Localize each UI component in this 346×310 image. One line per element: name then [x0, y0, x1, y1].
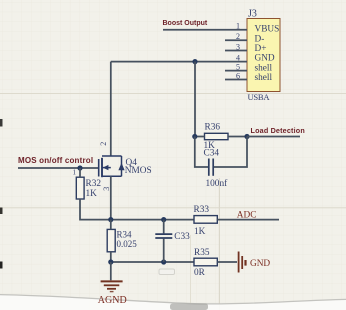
svg-text:R35: R35 — [194, 248, 210, 258]
power symbol GND (bars) — [239, 252, 246, 273]
wire Load Detection — [247, 136, 300, 138]
AGND bar 1 — [101, 280, 123, 282]
faint artifact line vertical right — [219, 178, 220, 310]
node junction gate/R32 — [77, 165, 82, 170]
resistor R32 — [76, 177, 84, 199]
C34 plate left — [208, 159, 210, 176]
svg-text:C34: C34 — [204, 149, 220, 159]
wire R32 top lead — [79, 168, 81, 177]
C33 plate top — [155, 233, 172, 235]
wire R34 top lead — [110, 220, 112, 230]
svg-text:1: 1 — [73, 168, 77, 176]
svg-text:0.025: 0.025 — [117, 239, 138, 249]
artifact left edge mark 1 — [0, 119, 3, 127]
node junction rail/C33 top — [161, 217, 166, 222]
svg-text:C33: C33 — [174, 232, 190, 242]
wire R34 bottom lead — [110, 252, 112, 262]
svg-text:0R: 0R — [194, 268, 206, 278]
source stub — [102, 175, 122, 177]
resistor R33 — [194, 216, 217, 224]
node junction pin4/R36 branch — [192, 59, 197, 64]
drain stub — [102, 155, 122, 157]
bottom photo white band — [0, 295, 346, 310]
resistor R36 — [205, 133, 229, 139]
svg-text:D-: D- — [255, 34, 265, 44]
C34 plate right — [212, 159, 214, 176]
wire pin5 stub — [225, 70, 247, 72]
faint artifact line vertical — [190, 235, 191, 310]
middle stub — [102, 167, 111, 169]
svg-text:1K: 1K — [194, 227, 206, 237]
wire C33 bottom stem — [163, 239, 165, 262]
node junction rail/source — [108, 217, 113, 222]
svg-text:GND: GND — [250, 259, 270, 269]
capacitor C33 — [155, 220, 172, 262]
faint artifact line horizontal middle — [0, 207, 346, 208]
body arrow (points up) — [118, 163, 124, 171]
svg-text:NMOS: NMOS — [125, 166, 152, 176]
node junction R36 left — [192, 134, 197, 139]
wire vertical to R36 left — [194, 62, 196, 137]
svg-text:Load Detection: Load Detection — [251, 126, 305, 135]
svg-text:USBA: USBA — [248, 92, 271, 102]
wire gate control — [18, 167, 98, 169]
svg-text:2: 2 — [99, 142, 108, 146]
wire R36 left lead — [195, 136, 205, 138]
svg-text:GND: GND — [255, 54, 275, 64]
artifact left edge mark 2 — [0, 208, 3, 215]
bottom dark smudge — [170, 304, 208, 310]
node junction rail2/C33 — [161, 259, 166, 264]
wire top rail (ADC rail) — [111, 219, 194, 221]
ground AGND symbol — [101, 262, 123, 292]
wire GND net pin4 horizontal — [111, 61, 247, 63]
svg-text:100nf: 100nf — [206, 178, 229, 189]
gate arrow (points left) — [103, 165, 109, 170]
svg-text:shell: shell — [255, 73, 273, 83]
wire C33 top stem — [163, 220, 165, 234]
AGND bar 3 — [107, 288, 116, 290]
wire pin2 stub — [225, 39, 247, 41]
wire pin6 stub — [225, 79, 247, 81]
wire Boost Output to pin 1 — [163, 29, 247, 31]
svg-text:R33: R33 — [194, 205, 210, 215]
svg-text:3: 3 — [102, 187, 111, 191]
AGND bar 2 — [104, 284, 120, 286]
svg-text:R32: R32 — [86, 179, 102, 189]
connector J3 body — [247, 19, 280, 92]
artifact left edge mark 3 — [0, 262, 3, 269]
svg-text:Boost Output: Boost Output — [163, 20, 208, 27]
svg-text:R36: R36 — [205, 122, 221, 132]
svg-text:shell: shell — [255, 63, 273, 73]
wire R33 to ADC — [217, 219, 279, 221]
svg-text:J3: J3 — [248, 8, 257, 19]
wire source vertical — [110, 176, 112, 219]
channel bar — [101, 158, 103, 177]
capacitor C34 — [195, 137, 247, 176]
node junction rail2/R34 — [108, 259, 113, 264]
svg-text:ADC: ADC — [237, 210, 257, 220]
wire AGND stem — [110, 262, 112, 280]
wire R36 right lead — [228, 136, 247, 138]
svg-text:MOS on/off control: MOS on/off control — [18, 156, 93, 165]
bottom gray line — [0, 295, 346, 304]
wire C34 left vertical — [195, 137, 209, 168]
AGND bar 4 — [110, 291, 114, 293]
wire bottom rail (GND rail) — [111, 261, 194, 263]
wire C34 right vertical — [213, 137, 247, 168]
wire pin3 stub — [225, 50, 247, 52]
wire R32 bottom to rail — [80, 199, 111, 220]
wire vertical drain from pin4 — [110, 62, 112, 156]
wire R35 to GND — [217, 261, 237, 263]
C33 plate bottom — [155, 237, 172, 239]
transistor Q4 — [99, 156, 122, 177]
svg-text:1K: 1K — [86, 189, 98, 199]
artifact ghost box — [159, 269, 175, 275]
svg-text:D+: D+ — [255, 44, 267, 54]
node junction R36 right / load detection — [244, 134, 249, 139]
body vertical — [121, 156, 123, 176]
svg-text:AGND: AGND — [98, 295, 127, 306]
resistor R35 — [194, 258, 217, 266]
faint artifact line horizontal upper — [0, 93, 346, 94]
resistor R34 — [107, 229, 115, 251]
gate bar — [98, 159, 100, 177]
svg-text:VBUS: VBUS — [255, 25, 280, 35]
